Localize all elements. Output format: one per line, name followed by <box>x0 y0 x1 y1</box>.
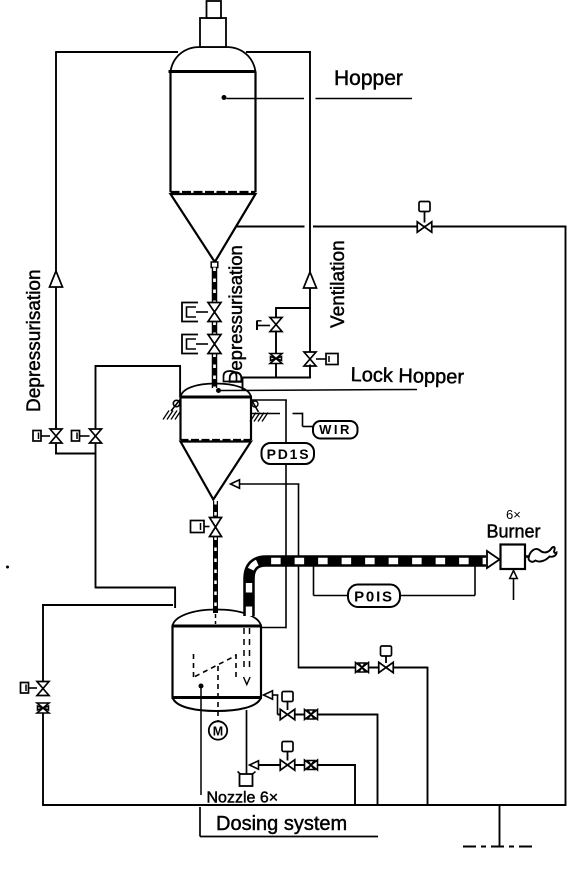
wire: row A drop <box>427 667 429 805</box>
flow arrow up (depressurisation) <box>50 271 63 287</box>
instrument POIS with taps <box>313 566 315 596</box>
wire: purge row B <box>264 691 273 700</box>
valve XV1 with cylinder actuator <box>208 303 221 322</box>
dosing vessel <box>173 610 262 627</box>
valve with actuator row A <box>379 662 394 673</box>
valve with actuator row C <box>280 760 295 771</box>
valve with actuator row B <box>280 709 295 720</box>
wire: lock hopper right to PDIS <box>251 399 287 401</box>
ground symbol <box>499 805 501 846</box>
lock hopper vessel <box>181 384 252 398</box>
valve cross row B <box>305 710 318 720</box>
wire: purge row C <box>250 761 259 770</box>
wire: row C drop <box>354 764 356 805</box>
valve left line upper <box>37 682 49 696</box>
wire: depressurisation header top <box>56 51 178 53</box>
screw conveyor hidden lines <box>193 654 195 677</box>
hopper vessel <box>171 47 256 72</box>
striped pipe dosing vessel to burner <box>249 561 486 616</box>
burner nozzle <box>487 551 500 568</box>
svg-text:Ventilation: Ventilation <box>328 240 349 328</box>
motor M <box>209 721 227 739</box>
wire: left drop to collector <box>55 443 57 455</box>
valve on ventilation line with side box <box>304 352 316 366</box>
valve top right with actuator <box>417 222 432 233</box>
wire: left nitrogen line x=43 <box>42 604 44 682</box>
wire: lock hopper to WIR <box>251 413 280 415</box>
svg-text:Depressurisation: Depressurisation <box>24 269 45 412</box>
svg-text:Nozzle 6×: Nozzle 6× <box>207 790 279 807</box>
stray dot <box>6 566 9 569</box>
valve left line lower (cross) <box>37 703 49 713</box>
instrument WIR <box>313 421 358 439</box>
striped feed pipe hopper to lock hopper <box>212 268 218 303</box>
hopper outlet stub <box>211 262 218 268</box>
svg-text:Lock Hopper: Lock Hopper <box>350 364 464 389</box>
wire: row B drop <box>377 714 379 805</box>
branch valve lower (cross) <box>270 354 282 364</box>
valve on left depressurisation drop <box>50 429 62 443</box>
wire: cone purge to right <box>231 480 240 489</box>
wire: ventilation branch <box>276 307 311 309</box>
valve lock hopper outlet with box <box>210 518 222 537</box>
svg-text:WIR: WIR <box>319 422 352 437</box>
valve XV2 with cylinder actuator <box>208 335 221 354</box>
striped pipe lock hopper outlet <box>213 501 218 518</box>
wire: right edge <box>565 227 567 806</box>
label Dosing system with bracket <box>199 807 201 837</box>
nozzle flanged box <box>238 772 242 775</box>
lock hopper support right <box>251 399 259 412</box>
svg-text:M: M <box>213 725 223 739</box>
hidden pipe arrow <box>244 677 251 685</box>
burner flame <box>529 547 557 562</box>
svg-text:6×: 6× <box>506 507 521 522</box>
svg-text:Dosing system: Dosing system <box>216 813 347 835</box>
wire: ventilation line <box>246 51 311 53</box>
svg-text:Depressurisation: Depressurisation <box>225 245 246 384</box>
motor shaft dashed <box>217 666 219 721</box>
lock hopper label leader <box>216 388 221 393</box>
burner pipe inside vessel (hidden) <box>243 628 245 672</box>
burner box <box>501 545 526 570</box>
feed pipe hidden stub inside dome <box>215 614 217 624</box>
wire: nozzle line from vessel <box>246 710 248 774</box>
svg-text:Burner: Burner <box>487 522 541 542</box>
svg-text:PD1S: PD1S <box>267 446 311 462</box>
instrument PDIS <box>262 443 315 464</box>
wire: bottom bus <box>42 804 566 806</box>
rupture disc on lock hopper dome <box>224 371 237 382</box>
wire: top cross line <box>237 226 305 228</box>
flow arrow up (ventilation) <box>304 272 317 288</box>
wire: branch collector to lock hopper dome <box>242 377 311 379</box>
hopper label leader <box>222 95 227 100</box>
valve cross row A <box>356 663 369 673</box>
burner air arrow <box>513 578 515 600</box>
valve cross row C <box>305 760 318 770</box>
svg-text:P0IS: P0IS <box>354 589 394 606</box>
lock hopper support left <box>173 400 179 406</box>
dosing vessel label leader <box>199 684 204 689</box>
valve on second line <box>90 429 102 443</box>
svg-text:Hopper: Hopper <box>334 67 403 90</box>
wire: second depressurisation line <box>95 365 97 429</box>
branch valve upper with blind stub <box>270 318 282 332</box>
